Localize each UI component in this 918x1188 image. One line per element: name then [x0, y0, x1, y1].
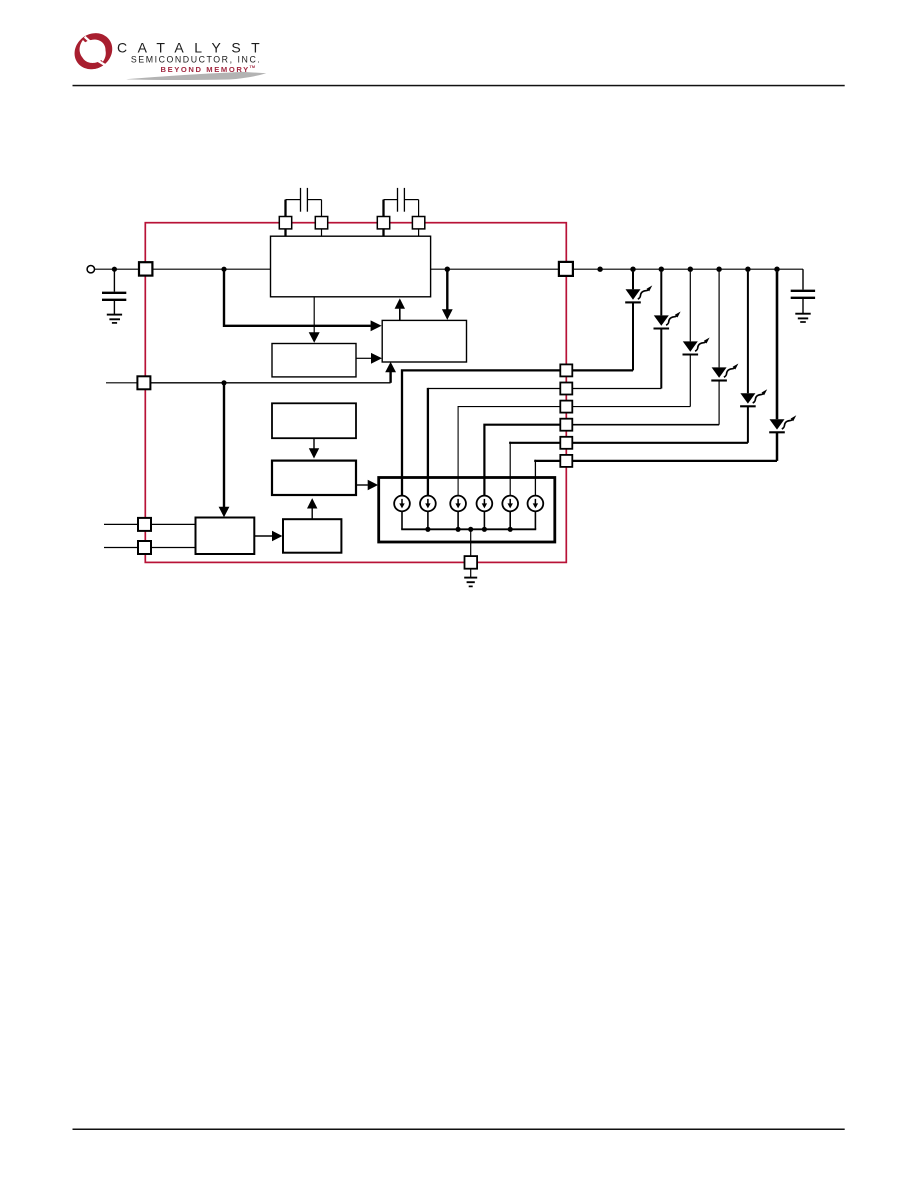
wire A right to VOUT pin: [431, 268, 559, 270]
LED D6: [769, 272, 796, 461]
channel drops into bank (redrawn over bank fill): [401, 478, 403, 497]
pin C1+: [279, 217, 291, 229]
ground (input cap): [107, 315, 122, 323]
pin GND: [465, 556, 478, 569]
flying capacitor C1: [286, 188, 322, 236]
pin C2-: [412, 217, 424, 229]
wire E to current sink bank (arrow right): [356, 484, 368, 486]
pin VOUT: [559, 262, 573, 276]
logo red C swoosh: [67, 26, 119, 77]
node EN junction: [221, 380, 226, 385]
block C: [272, 344, 356, 377]
wire GND tap: [470, 529, 472, 556]
logo gray swoosh: [126, 72, 267, 80]
wire VOUT external rail: [573, 268, 803, 270]
block F: [196, 518, 255, 555]
pin LED6: [560, 455, 572, 467]
input capacitor C-in: [102, 269, 126, 314]
block G: [283, 519, 341, 553]
channel 4 wiring: [484, 425, 561, 496]
wire VOUT feedback arrow into B top: [446, 269, 448, 309]
wire D to E (arrow down): [313, 438, 315, 448]
channel 5 wiring: [509, 442, 561, 444]
pin LED4: [560, 419, 572, 431]
pin SEL2: [138, 541, 151, 554]
pin EN: [137, 376, 150, 389]
wire VIN sense (bold L to block B): [224, 269, 371, 326]
wire A to C (arrow down): [313, 297, 315, 333]
channel 1 wiring: [402, 370, 561, 496]
flying capacitor C2: [384, 188, 419, 236]
wire VIN top rail: [95, 268, 271, 270]
node VIN junction: [112, 267, 117, 272]
wire C to B (arrow right): [356, 357, 371, 359]
svg-text:BEYOND MEMORY: BEYOND MEMORY: [161, 65, 250, 74]
pin C2+: [377, 217, 389, 229]
pin VIN: [139, 262, 152, 275]
wire EN rail: [106, 382, 138, 384]
channel 3 wiring: [458, 407, 561, 496]
pin LED3: [560, 401, 572, 413]
current sources I1..I6: [394, 496, 543, 512]
node bus junctions: [425, 527, 513, 532]
node sense junction: [221, 267, 226, 272]
header rule: [73, 85, 845, 87]
svg-text:SEMICONDUCTOR, INC.: SEMICONDUCTOR, INC.: [131, 55, 261, 65]
channel 6 wiring: [534, 460, 561, 462]
block E: [272, 461, 356, 495]
pin LED5: [560, 437, 572, 449]
node VOUT junction: [445, 267, 450, 272]
wire EN down to block F (arrow down): [223, 383, 225, 507]
pin LED2: [560, 383, 572, 395]
block D: [272, 403, 356, 438]
wire EN to B bottom (arrow up): [389, 372, 391, 383]
current sink bank: [379, 478, 555, 543]
svg-text:CATALYST: CATALYST: [117, 40, 270, 56]
wire B to A (arrow up): [399, 309, 401, 321]
wire pins to block F: [104, 523, 138, 525]
footer rule: [73, 1129, 845, 1131]
channel 2 wiring: [428, 388, 561, 390]
terminal VIN: [87, 266, 94, 273]
pin SEL1: [138, 518, 151, 531]
pin C1-: [315, 217, 327, 229]
wire F to G (arrow right): [254, 535, 272, 537]
LED D1: [625, 272, 652, 371]
svg-text:TM: TM: [250, 65, 255, 69]
ground (GND pin): [464, 578, 477, 587]
LED D4: [711, 272, 738, 425]
LED D2: [654, 272, 681, 389]
block A charge pump: [271, 236, 431, 297]
LED D3: [683, 272, 710, 407]
output capacitor C-out: [791, 269, 815, 313]
pin LED1: [560, 364, 572, 376]
node LED rail junctions: [597, 267, 779, 272]
ground (output cap): [795, 314, 810, 322]
wire G to E (arrow up): [311, 508, 313, 519]
IC boundary (red): [145, 223, 566, 563]
LED D5: [740, 272, 767, 443]
wire sink common bus: [401, 511, 536, 529]
block B regulation: [382, 320, 466, 362]
